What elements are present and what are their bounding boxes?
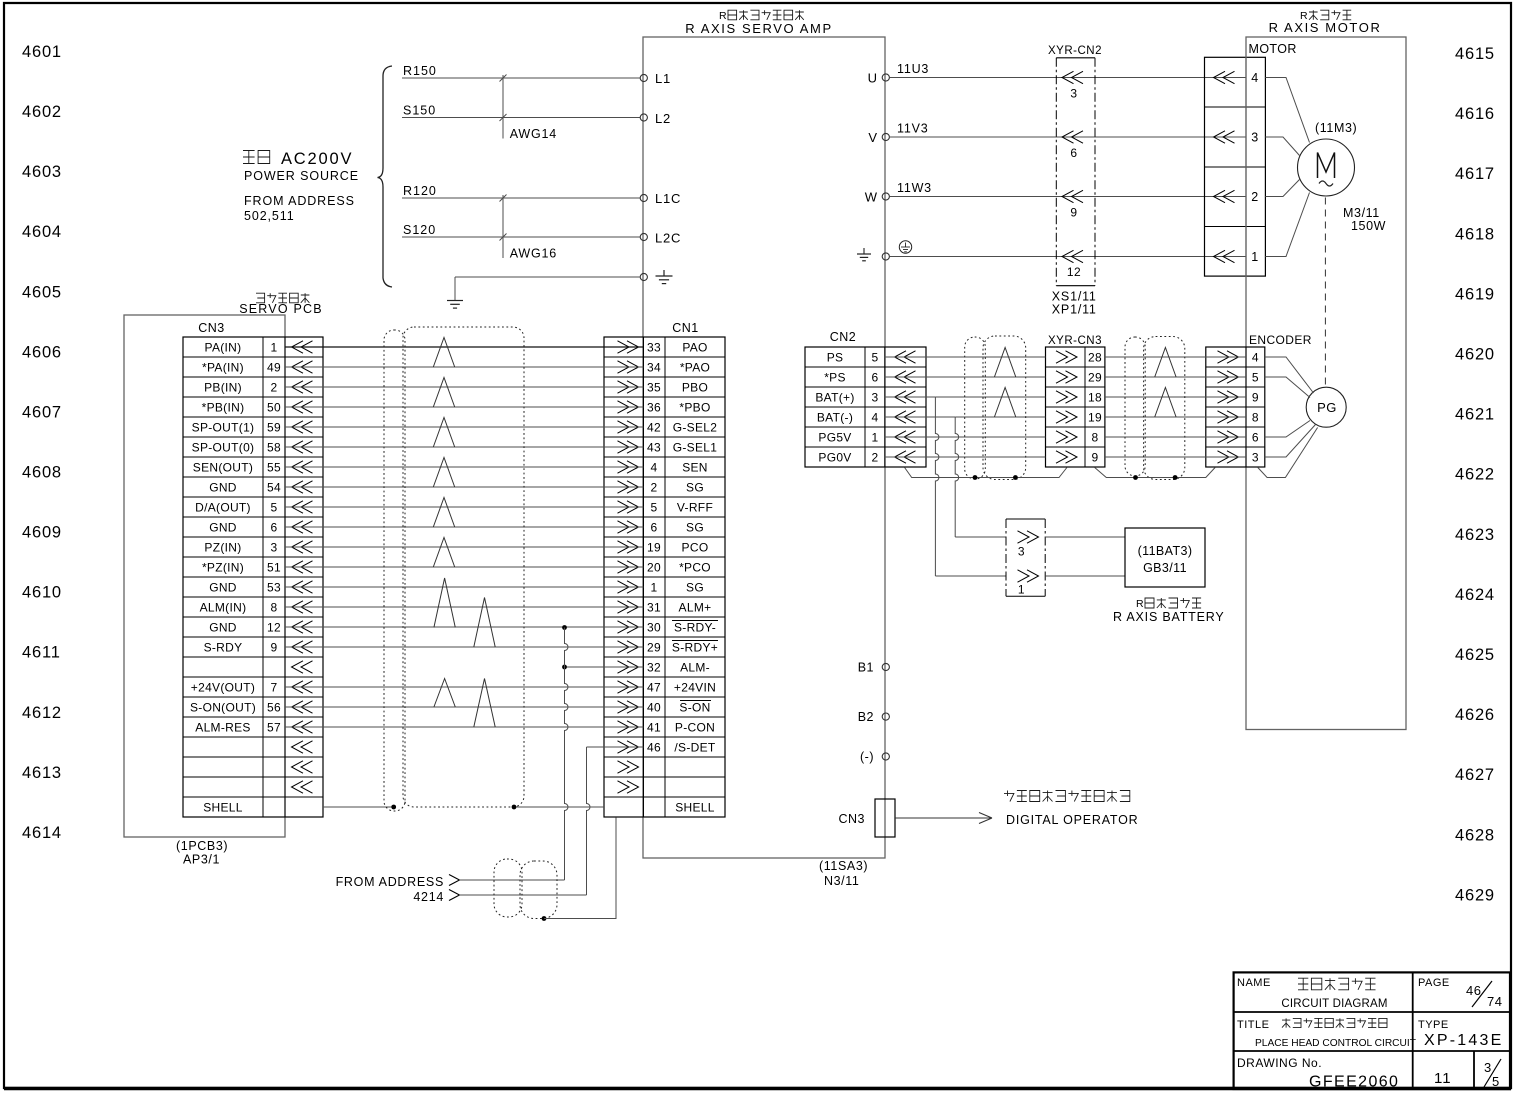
vertical wire to address 4214 line1 [565,628,569,881]
svg-text:20: 20 [647,561,661,575]
label (11BAT3) GB3/11 [1138,544,1193,575]
svg-text:PAO: PAO [682,341,707,355]
svg-text:XYR-CN3: XYR-CN3 [1048,335,1102,347]
svg-text:TITLE: TITLE [1237,1019,1269,1031]
wire motor pin1 to M [1265,193,1309,257]
wire PS [885,356,1046,358]
svg-text:M3/11: M3/11 [1343,206,1380,220]
svg-text:46: 46 [1466,983,1481,998]
svg-text:4629: 4629 [1455,886,1495,904]
svg-text:6: 6 [271,521,278,535]
svg-text:GND: GND [209,621,237,635]
svg-text:SEN: SEN [682,461,708,475]
twist pair BAT [994,388,1015,418]
svg-text:4620: 4620 [1455,346,1495,364]
brace for power source [378,66,393,287]
svg-text:S-RDY-: S-RDY- [674,621,716,635]
junction dot ALM- node [562,665,567,670]
junction dot S-RDY- node [562,625,567,630]
svg-text:XYR-CN2: XYR-CN2 [1048,45,1102,57]
svg-text:29: 29 [647,641,661,655]
shield wire encoder to PG [1258,428,1318,478]
svg-text:SHELL: SHELL [675,801,715,815]
svg-text:19: 19 [647,541,661,555]
svg-text:5: 5 [271,501,278,515]
svg-text:4627: 4627 [1455,766,1495,784]
svg-text:SG: SG [686,581,704,595]
svg-text:4: 4 [872,411,879,425]
svg-text:ALM(IN): ALM(IN) [200,601,247,615]
svg-text:L1C: L1C [655,191,681,206]
wire BAT(+) branch [885,397,1006,576]
wire W phase 11W3 [889,181,1246,197]
label M3/11 150W [1343,206,1386,233]
label R-axis servo amp (JP) [719,10,804,22]
wire gauge tick AWG14 [500,75,558,142]
svg-text:(11BAT3): (11BAT3) [1138,544,1193,558]
battery connector pin 3 [1018,531,1039,559]
wire S120 [402,223,640,237]
terminal PE with ground symbol [640,270,672,284]
terminal B2 [858,710,890,724]
connector XYR-CN3 grid [1046,347,1105,467]
svg-text:9: 9 [1252,391,1259,405]
svg-text:4604: 4604 [22,223,62,241]
wire enc pin3 to PG [1265,425,1316,458]
encoder PG circle [1306,387,1346,427]
svg-text:57: 57 [267,721,281,735]
svg-text:S150: S150 [403,104,436,118]
svg-text:+24V(OUT): +24V(OUT) [191,681,255,695]
svg-text:74: 74 [1487,994,1502,1009]
svg-text:SG: SG [686,481,704,495]
XYR-CN2 pin 3 [1062,71,1083,100]
svg-text:S-ON(OUT): S-ON(OUT) [190,701,256,715]
svg-text:33: 33 [647,341,661,355]
svg-text:*PCO: *PCO [679,561,711,575]
svg-text:SG: SG [686,521,704,535]
svg-text:4610: 4610 [22,584,62,602]
twist pair enc 9/8 [1155,388,1176,418]
svg-text:5: 5 [872,351,879,365]
svg-text:4621: 4621 [1455,406,1495,424]
wire V phase 11V3 [889,122,1246,138]
cable shield loop drain [384,330,405,811]
svg-text:SP-OUT(0): SP-OUT(0) [192,441,255,455]
wire XYR-CN3 19 to encoder [1105,416,1246,418]
svg-text:11: 11 [1434,1070,1452,1087]
svg-text:150W: 150W [1351,219,1386,233]
svg-text:4612: 4612 [22,704,62,722]
title block TYPE cell [1418,1019,1503,1049]
svg-text:SEN(OUT): SEN(OUT) [193,461,253,475]
encoder cable shield drain loop B [1125,337,1145,476]
svg-text:4618: 4618 [1455,225,1495,243]
wire motor pin2 to M [1265,180,1299,197]
svg-text:31: 31 [647,601,661,615]
svg-text:55: 55 [267,461,281,475]
svg-text:11U3: 11U3 [897,62,929,76]
svg-text:SERVO PCB: SERVO PCB [239,302,323,316]
battery GB1 box [1125,528,1205,587]
svg-text:9: 9 [1070,206,1077,220]
svg-text:PS: PS [827,351,844,365]
svg-text:34: 34 [647,361,661,375]
svg-text:(11M3): (11M3) [1315,121,1357,135]
svg-text:ENCODER: ENCODER [1249,333,1312,347]
wire 19 BAT- [955,416,1045,418]
shield wire XYR-CN3 to encoder [1095,468,1215,478]
twist pair PB [433,378,454,408]
svg-text:S-ON: S-ON [679,701,710,715]
svg-text:R: R [1136,598,1144,610]
CN1 pin labels [647,341,718,815]
wire BAT(-) branch [885,417,1006,537]
label DIGITAL OPERATOR [1006,813,1139,827]
connector CN2 table grid [805,347,926,467]
XYR-CN2 pin 6 [1062,131,1083,160]
svg-text:PZ(IN): PZ(IN) [204,541,241,555]
svg-text:4624: 4624 [1455,586,1495,604]
svg-text:S120: S120 [403,223,436,237]
svg-text:8: 8 [271,601,278,615]
wire enc pin6 to PG [1265,421,1310,438]
label R axis battery (JP) [1136,598,1201,610]
svg-text:W: W [865,190,878,205]
svg-text:D/A(OUT): D/A(OUT) [195,501,251,515]
wire PG0V [885,456,1046,458]
svg-text:PBO: PBO [682,381,708,395]
title block sheet cell [1434,1070,1452,1087]
svg-text:4613: 4613 [22,764,62,782]
servo amp U1 box [643,37,885,858]
terminal V [868,130,889,145]
title block PAGE cell [1418,977,1502,1009]
svg-text:2: 2 [271,381,278,395]
svg-text:SP-OUT(1): SP-OUT(1) [192,421,255,435]
label CN1 header [672,321,699,335]
label R AXIS MOTOR [1269,20,1382,35]
XYR-CN2 pin 9 [1062,190,1083,219]
svg-text:4617: 4617 [1455,165,1495,183]
twist pair enc 4/5 [1155,348,1176,378]
twist pair GND53/ALM [434,578,455,628]
svg-text:*PZ(IN): *PZ(IN) [202,561,244,575]
shield dot B1 [1133,475,1138,480]
svg-text:*PA(IN): *PA(IN) [202,361,244,375]
svg-text:54: 54 [267,481,281,495]
svg-text:36: 36 [647,401,661,415]
svg-text:ALM-RES: ALM-RES [195,721,250,735]
svg-text:1: 1 [651,581,658,595]
svg-text:11V3: 11V3 [897,122,928,136]
shield loop at address wires A [494,859,522,917]
svg-text:4614: 4614 [22,824,62,842]
svg-text:4622: 4622 [1455,466,1495,484]
svg-text:DIGITAL OPERATOR: DIGITAL OPERATOR [1006,813,1139,827]
svg-text:L2: L2 [655,111,671,126]
svg-text:5: 5 [651,501,658,515]
label CN3 header [198,321,225,335]
svg-text:4606: 4606 [22,343,62,361]
svg-text:G-SEL1: G-SEL1 [673,441,718,455]
label servo pcb (JP) [256,293,309,303]
svg-text:CN3: CN3 [198,321,225,335]
right margin line numbers 4615-4629 [1455,45,1495,904]
title block TITLE row [1237,1018,1416,1049]
svg-text:FROM ADDRESS: FROM ADDRESS [244,194,355,208]
svg-text:35: 35 [647,381,661,395]
svg-text:1: 1 [271,341,278,355]
svg-text:11W3: 11W3 [897,181,932,195]
svg-text:6: 6 [1252,431,1259,445]
terminal L2 [640,111,671,126]
svg-text:4601: 4601 [22,43,62,61]
svg-text:ALM+: ALM+ [679,601,712,615]
wire enc pin4 to PG [1265,357,1314,393]
svg-text:GFEE2060: GFEE2060 [1309,1074,1399,1091]
title block grid [1234,972,1510,1089]
label R-axis motor (JP) [1300,10,1351,22]
label SERVO PCB [239,302,323,316]
motor connector pin 3 [1214,131,1259,145]
svg-text:R AXIS MOTOR: R AXIS MOTOR [1269,20,1382,35]
svg-text:R120: R120 [403,184,437,198]
svg-text:U: U [868,71,877,86]
terminal B1 [858,661,890,675]
wire XYR-CN3 29 to encoder [1105,376,1246,378]
label POWER SOURCE [244,169,359,183]
label digital operator (JP) [1004,791,1130,802]
svg-text:49: 49 [267,361,281,375]
svg-text:6: 6 [1070,146,1077,160]
terminal L2C [640,231,681,246]
svg-text:*PAO: *PAO [680,361,710,375]
wires CN3 to CN1 [285,347,644,727]
svg-text:PLACE HEAD CONTROL CIRCUIT: PLACE HEAD CONTROL CIRCUIT [1255,1038,1416,1049]
svg-text:8: 8 [1252,411,1259,425]
twist pair S-ON/ALM-RES [474,679,495,728]
svg-text:PG5V: PG5V [818,431,851,445]
wire motor pin3 to M [1265,137,1299,156]
svg-text:/S-DET: /S-DET [674,741,716,755]
svg-text:*PS: *PS [824,371,846,385]
svg-text:4: 4 [651,461,658,475]
encoder cable shield main loop A [983,336,1026,480]
wire battery pin1 [1045,575,1125,577]
terminal W [865,190,890,205]
svg-text:2: 2 [872,451,879,465]
svg-text:SHELL: SHELL [203,801,243,815]
label XS1/11 XP1/11 [1052,290,1097,317]
label ENCODER [1249,333,1312,347]
motor connector outline [1205,57,1266,276]
svg-text:AC200V: AC200V [281,150,353,168]
wire U phase 11U3 [889,62,1246,78]
svg-text:19: 19 [1088,411,1102,425]
svg-text:1: 1 [872,431,879,445]
svg-text:(-): (-) [860,750,874,764]
label XYR-CN3 header [1048,335,1102,347]
label MOTOR [1249,42,1297,56]
wire *PS [885,376,1046,378]
svg-text:41: 41 [647,721,661,735]
svg-text:58: 58 [267,441,281,455]
shield dot A1 [973,475,978,480]
motor shaft dashed link [1324,198,1326,385]
svg-text:5: 5 [1492,1074,1500,1089]
terminal (-) [860,750,889,764]
CN2 cable arrows [895,351,916,463]
svg-text:GND: GND [209,521,237,535]
wire battery pin3 [1045,536,1125,538]
connector XYR-CN2 outline [1048,45,1102,286]
svg-text:AP3/1: AP3/1 [183,853,220,867]
CN3 cable arrows [292,341,313,793]
twist pair +24V/S-ON [434,679,455,708]
svg-text:502,511: 502,511 [244,209,295,223]
svg-text:51: 51 [267,561,281,575]
title block page fraction [1484,1059,1501,1089]
CN1 cable arrows [618,341,639,793]
svg-text:12: 12 [1067,265,1081,279]
svg-text:1: 1 [1251,250,1258,264]
svg-text:3: 3 [1484,1060,1492,1075]
svg-text:4623: 4623 [1455,526,1495,544]
motor connector pin 1 [1214,250,1259,264]
svg-text:AWG16: AWG16 [510,247,557,261]
label (11M3) [1315,121,1357,135]
svg-text:4603: 4603 [22,163,62,181]
ground symbol at power input [447,301,463,309]
svg-text:B2: B2 [858,710,874,724]
svg-text:R AXIS BATTERY: R AXIS BATTERY [1113,610,1224,624]
svg-text:R150: R150 [403,64,437,78]
svg-text:L1: L1 [655,71,671,86]
svg-text:*PB(IN): *PB(IN) [202,401,245,415]
svg-text:4: 4 [1251,71,1258,85]
cable shield loop main [403,327,524,807]
svg-text:CN1: CN1 [672,321,699,335]
protective earth symbol circled [899,241,911,253]
svg-text:47: 47 [647,681,661,695]
twist pair SEN/GND [433,458,454,488]
svg-text:PCO: PCO [682,541,709,555]
svg-text:30: 30 [647,621,661,635]
battery connector box [1006,519,1045,596]
wire R150 [402,64,640,78]
servo PCB AP3/1 box [124,315,285,837]
svg-text:4628: 4628 [1455,826,1495,844]
shield tap dot right [512,805,517,810]
XYR-CN3 pin labels [1088,351,1102,465]
svg-text:R AXIS SERVO AMP: R AXIS SERVO AMP [685,21,832,36]
svg-text:4615: 4615 [1455,45,1495,63]
terminal L1 [640,71,671,86]
svg-text:PAGE: PAGE [1418,977,1450,989]
svg-text:L2C: L2C [655,231,681,246]
label R AXIS SERVO AMP [685,21,832,36]
svg-text:PG0V: PG0V [818,451,851,465]
svg-text:XS1/11: XS1/11 [1052,290,1097,304]
left margin line numbers 4601-4614 [22,43,62,842]
twist pair PA [433,338,454,368]
terminal U [868,71,890,86]
wire XYR-CN3 18 to encoder [1105,396,1246,398]
svg-text:DRAWING No.: DRAWING No. [1237,1056,1322,1070]
svg-text:4611: 4611 [22,644,61,662]
svg-text:PG: PG [1317,400,1337,415]
svg-text:BAT(-): BAT(-) [817,411,853,425]
terminal PE out [857,248,889,261]
svg-text:P-CON: P-CON [675,721,715,735]
svg-text:50: 50 [267,401,281,415]
arrow to digital operator [895,813,992,824]
svg-text:GND: GND [209,481,237,495]
svg-text:43: 43 [647,441,661,455]
XYR-CN3 cable arrows [1056,351,1077,463]
svg-text:32: 32 [647,661,661,675]
svg-text:3: 3 [1251,131,1258,145]
wire CN1 shell [514,806,604,808]
connector CN3 table grid [183,337,323,817]
svg-text:4625: 4625 [1455,646,1495,664]
svg-text:XP-143E: XP-143E [1424,1032,1503,1049]
svg-text:8: 8 [1092,431,1099,445]
wire PG5V [885,436,1046,438]
svg-text:*PBO: *PBO [679,401,710,415]
label (11SA3) N3/11 [819,859,868,888]
motor connector pin 2 [1214,190,1259,204]
connector CN1 table grid [604,337,725,817]
svg-text:G-SEL2: G-SEL2 [673,421,718,435]
shield tap dot left [391,805,396,810]
label power source (JP) 電源 AC200V [243,150,353,168]
svg-text:NAME: NAME [1237,977,1271,989]
svg-text:3: 3 [1252,451,1259,465]
svg-text:4605: 4605 [22,283,62,301]
svg-text:9: 9 [271,641,278,655]
wire enc pin5 to PG [1265,377,1310,398]
label FROM ADDRESS 4214 [336,875,444,904]
wire gauge tick AWG16 [500,195,558,261]
svg-text:29: 29 [1088,371,1102,385]
svg-text:56: 56 [267,701,281,715]
title block NAME row [1237,977,1388,1010]
svg-text:S-RDY+: S-RDY+ [672,641,718,655]
svg-text:B1: B1 [858,661,874,675]
svg-text:3: 3 [1018,545,1025,559]
svg-text:POWER SOURCE: POWER SOURCE [244,169,359,183]
connector ENCODER grid [1206,347,1265,467]
svg-text:(11SA3): (11SA3) [819,859,868,873]
wire 18 BAT+ [935,396,1045,398]
shield drain dot bottom [542,916,547,921]
wire motor pin4 to M [1265,78,1309,143]
svg-text:4616: 4616 [1455,105,1495,123]
svg-text:1: 1 [1018,583,1025,597]
shield drain wire to CN1 shell [544,817,616,918]
twist pair D/A [433,498,454,528]
svg-text:2: 2 [1251,190,1258,204]
motor connector pin 4 [1214,71,1259,85]
svg-text:AWG14: AWG14 [510,127,557,141]
CN2 pin labels [815,351,878,465]
svg-text:2: 2 [651,481,658,495]
ground wire from PE terminal [455,277,640,300]
motor box [1246,37,1406,730]
svg-text:18: 18 [1088,391,1102,405]
